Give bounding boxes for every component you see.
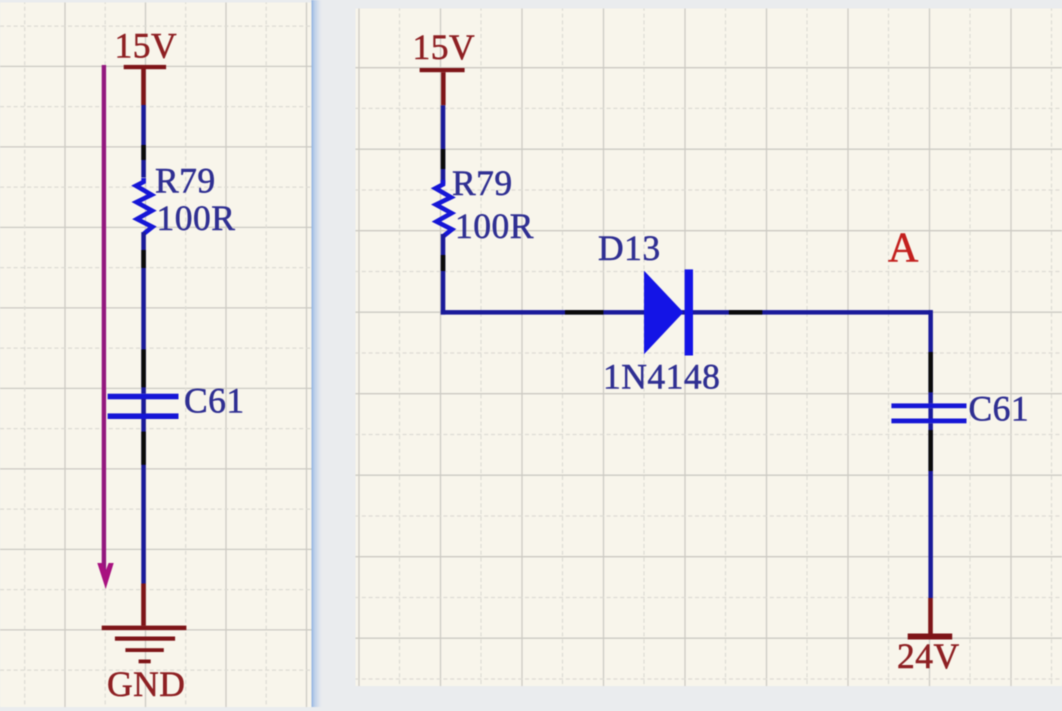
svg-text:15V: 15V bbox=[413, 27, 476, 67]
svg-text:C61: C61 bbox=[184, 381, 245, 421]
svg-text:100R: 100R bbox=[157, 198, 236, 238]
resistor R79 (left) bbox=[136, 178, 153, 234]
wire dark segment bbox=[141, 349, 146, 387]
wire dark segment bbox=[441, 255, 446, 271]
svg-text:100R: 100R bbox=[455, 206, 534, 246]
svg-text:C61: C61 bbox=[969, 389, 1030, 429]
wire: 15V stub to resistor (left) bbox=[141, 105, 146, 178]
wire: node A corner down to capacitor (right) bbox=[928, 310, 933, 403]
svg-text:R79: R79 bbox=[452, 163, 513, 203]
power port 15V (left) bbox=[124, 65, 166, 105]
left schematic panel bbox=[0, 3, 312, 708]
wire dark segment bbox=[928, 430, 933, 471]
wire: resistor down to corner (right) bbox=[441, 234, 446, 315]
wire: capacitor to ground (left) bbox=[141, 419, 146, 584]
svg-text:GND: GND bbox=[107, 664, 185, 704]
wire dark segment bbox=[141, 145, 146, 160]
wire: 15V stub to resistor (right) bbox=[441, 105, 446, 184]
svg-text:1N4148: 1N4148 bbox=[603, 357, 720, 397]
capacitor C61 (left) bbox=[108, 394, 179, 419]
wire dark segment bbox=[729, 310, 762, 315]
wire dark segment bbox=[565, 310, 603, 315]
right schematic panel bbox=[356, 9, 1062, 687]
window edge blue strip bbox=[312, 0, 323, 707]
wire dark segment bbox=[141, 250, 146, 268]
wire dark segment bbox=[441, 149, 446, 169]
ground GND bbox=[102, 584, 187, 664]
svg-text:15V: 15V bbox=[115, 26, 178, 66]
svg-text:D13: D13 bbox=[598, 228, 661, 268]
power port 15V (right) bbox=[420, 68, 465, 105]
svg-text:R79: R79 bbox=[155, 161, 216, 201]
diode D13 bbox=[644, 269, 693, 355]
wire: resistor to capacitor (left) bbox=[141, 232, 146, 394]
wire dark segment bbox=[141, 432, 146, 465]
svg-text:24V: 24V bbox=[897, 636, 960, 676]
capacitor C61 (right) bbox=[891, 403, 966, 423]
wire: capacitor down to 24V (right) bbox=[928, 423, 933, 598]
power port 24V bbox=[908, 598, 953, 640]
svg-text:A: A bbox=[888, 226, 919, 272]
probe arrow bbox=[97, 65, 113, 589]
wire dark segment bbox=[928, 352, 933, 392]
wire: horizontal run to node A corner bbox=[441, 310, 932, 315]
resistor R79 (right) bbox=[436, 180, 453, 236]
